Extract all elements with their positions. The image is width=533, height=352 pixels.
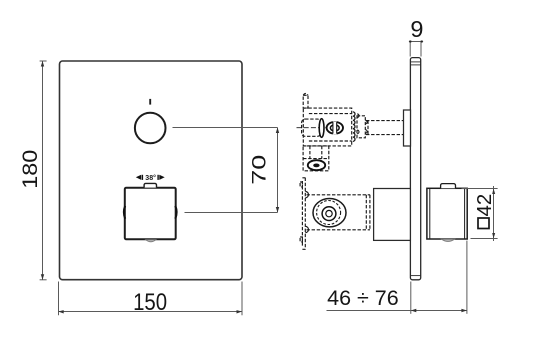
svg-text:38°: 38° (145, 174, 156, 182)
body thread scallops (353, 112, 355, 141)
check valve port center (313, 164, 319, 168)
handle left grip arc (124, 206, 125, 219)
handle top tab front (144, 183, 156, 187)
cartridge outer ellipse (313, 199, 346, 227)
dim 180 extension bottom (40, 279, 47, 281)
dim 9 extensions (409, 42, 411, 57)
dim 9 line (409, 41, 423, 43)
handle side bottom arc (442, 239, 455, 241)
gland nut (357, 116, 365, 138)
thermostat body (307, 194, 371, 196)
dim 42 extensions (462, 188, 498, 190)
screw boss inner (330, 125, 339, 131)
38 degree label (136, 174, 165, 182)
upper valve centerline (297, 127, 328, 129)
dim 46-76 extensions (410, 282, 412, 314)
handle bottom arc (146, 240, 156, 242)
inlet cap lens (319, 119, 324, 138)
svg-text:42: 42 (473, 194, 496, 217)
flange bumps (305, 191, 308, 232)
dim 70 leader top (173, 127, 278, 129)
dim 150 extension left (58, 282, 60, 316)
dim 46-76 line (327, 310, 467, 312)
svg-text:46 ÷ 76: 46 ÷ 76 (327, 286, 399, 310)
svg-text:9: 9 (410, 16, 423, 42)
handle side top tab (441, 184, 456, 189)
handle right grip arc (175, 206, 176, 219)
lower sleeve box (374, 189, 411, 241)
side plate bottom band (410, 275, 420, 277)
svg-text:150: 150 (133, 289, 167, 316)
dim 150 extension right (241, 282, 243, 316)
inlet boss (302, 119, 322, 136)
cartridge dashed circle (317, 201, 341, 225)
round knob (135, 113, 166, 144)
knob index tick (149, 99, 151, 105)
svg-text:180: 180 (18, 150, 42, 189)
side plate top band (410, 61, 420, 63)
dim 42 line (493, 186, 495, 241)
check valve port ellipse (308, 160, 325, 170)
top bleed nub (303, 95, 308, 108)
svg-text:70: 70 (249, 155, 270, 185)
lower valve flange (300, 178, 376, 250)
upper sleeve box (404, 110, 411, 146)
square handle front (125, 188, 176, 240)
dim 70 line (277, 128, 279, 213)
front plate (60, 61, 243, 280)
screw boss outer (327, 122, 343, 134)
check valve box (303, 146, 329, 171)
dim 180 line (42, 61, 44, 280)
cartridge inner rings (322, 207, 336, 221)
dim 150 line (58, 311, 242, 313)
square symbol (478, 218, 489, 229)
dim 180 extension top (40, 60, 47, 62)
square handle side view (427, 188, 467, 239)
side plate (410, 58, 420, 280)
screw slot (333, 121, 337, 134)
upper valve body (dashed) (302, 94, 352, 146)
dim 70 leader bottom (185, 212, 278, 214)
spindle shaft (366, 121, 403, 135)
